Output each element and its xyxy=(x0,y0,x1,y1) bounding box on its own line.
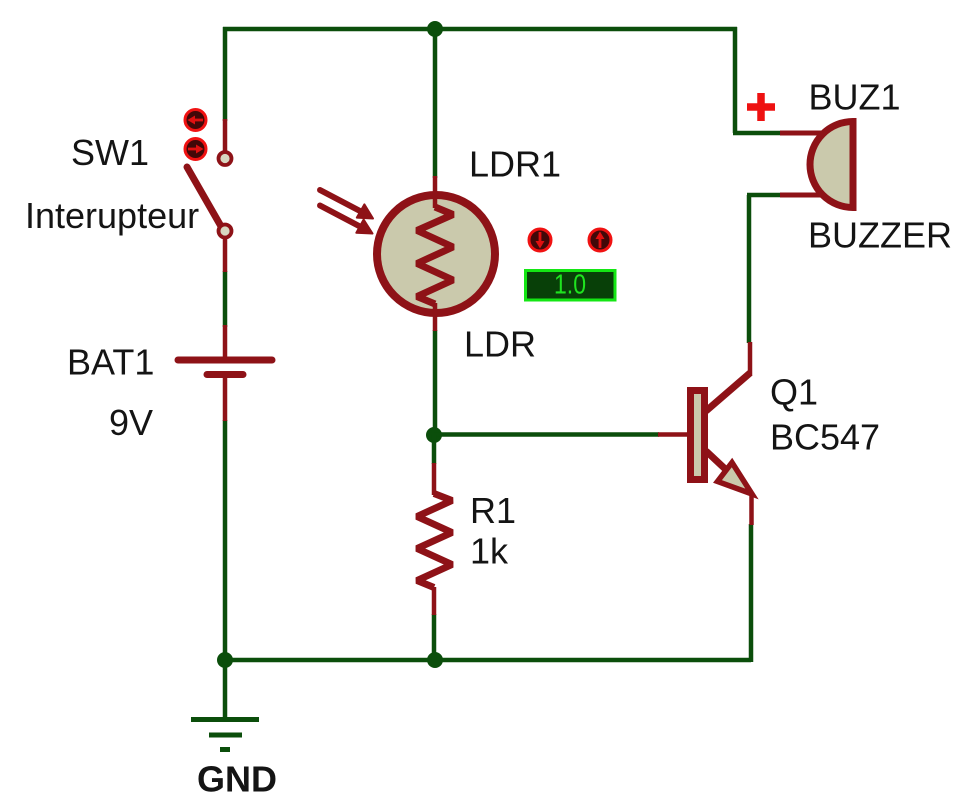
svg-text:Q1: Q1 xyxy=(770,372,818,413)
LDR1 light arrow 2 xyxy=(320,206,373,234)
wire switch to battery xyxy=(223,271,228,327)
LDR1 light arrow 1 xyxy=(320,190,373,219)
wire buzzer bottom feed xyxy=(747,193,782,198)
actuator button down xyxy=(529,229,551,251)
svg-text:1k: 1k xyxy=(470,531,509,572)
wire ground stem xyxy=(223,660,228,720)
buzzer plus polarity xyxy=(747,93,775,121)
battery BAT1 pin bottom xyxy=(223,374,228,421)
actuator button up xyxy=(589,229,611,251)
battery BAT1 plate short xyxy=(207,371,243,378)
resistor R1 xyxy=(417,463,452,615)
node top junction xyxy=(427,21,443,37)
wire right rail xyxy=(733,27,738,133)
svg-text:1.0: 1.0 xyxy=(554,269,586,300)
wire LDR bottom to node xyxy=(433,330,438,437)
switch SW1 pin top xyxy=(223,119,228,152)
wire R1 bottom xyxy=(432,614,437,660)
buzzer BUZ1 xyxy=(780,122,853,208)
display value 1.0 xyxy=(526,269,616,301)
switch SW1 button right-arrow xyxy=(185,139,206,160)
switch SW1 lever xyxy=(187,167,222,228)
wire emitter to bottom rail xyxy=(749,524,754,662)
switch SW1 terminal bottom xyxy=(219,225,232,238)
svg-text:LDR1: LDR1 xyxy=(469,144,561,185)
transistor Q1 xyxy=(658,342,752,525)
battery BAT1 plate long xyxy=(178,357,272,364)
node bottom middle junction xyxy=(427,652,443,668)
svg-text:BAT1: BAT1 xyxy=(67,342,154,383)
svg-text:Interupteur: Interupteur xyxy=(25,195,199,236)
switch SW1 terminal top xyxy=(219,152,232,165)
wire base net xyxy=(434,432,659,437)
svg-text:SW1: SW1 xyxy=(71,132,149,173)
wire collector net xyxy=(747,195,752,343)
svg-text:BUZ1: BUZ1 xyxy=(809,77,901,118)
node divider junction xyxy=(426,427,442,443)
wire buzzer top feed xyxy=(733,131,782,136)
svg-text:GND: GND xyxy=(197,759,277,800)
switch SW1 pin bottom xyxy=(223,237,228,272)
svg-text:BC547: BC547 xyxy=(770,417,880,458)
wire bottom rail xyxy=(225,658,751,663)
svg-text:BUZZER: BUZZER xyxy=(808,215,952,256)
battery BAT1 pin top xyxy=(223,325,228,361)
svg-text:LDR: LDR xyxy=(464,324,536,365)
svg-text:9V: 9V xyxy=(109,402,153,443)
ground xyxy=(191,720,259,750)
wire R1 top xyxy=(432,435,437,464)
wire top rail xyxy=(223,27,737,32)
node bottom left junction xyxy=(217,652,233,668)
wire battery to bottom rail xyxy=(223,420,228,662)
svg-text:R1: R1 xyxy=(470,490,516,531)
wire left rail top xyxy=(223,27,228,121)
resistor LDR1 xyxy=(377,176,495,331)
switch SW1 button left-arrow xyxy=(185,110,206,131)
wire LDR top branch xyxy=(433,29,438,178)
